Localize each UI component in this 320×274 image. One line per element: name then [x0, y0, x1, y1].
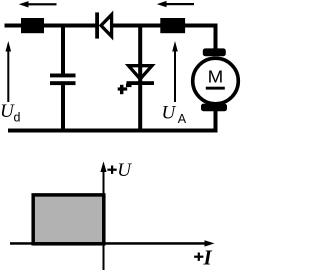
- thyristor T1 triangle: [129, 66, 153, 79]
- voltage arrow Ud: [6, 41, 12, 102]
- capacitor C1 plates: [50, 74, 76, 86]
- motor label M with underline: [206, 67, 225, 90]
- label Ud: [0, 101, 21, 125]
- svg-text:U: U: [162, 103, 177, 124]
- wire top rail left segment: [5, 24, 97, 28]
- current arrow left (over L1): [19, 1, 57, 7]
- motor bottom brush: [201, 104, 227, 112]
- motor M circle: [193, 58, 239, 104]
- wire bottom rail: [8, 129, 218, 133]
- axis label +U: [107, 160, 132, 181]
- inductor L2 (filled choke rectangle): [160, 18, 185, 33]
- thyristor T1 gate lead with terminal tick: [118, 84, 132, 95]
- inductor L1 (filled choke rectangle): [21, 18, 44, 33]
- motor top brush: [203, 48, 226, 56]
- graph vertical axis +U: [100, 161, 106, 270]
- voltage arrow UA: [172, 41, 178, 102]
- wire motor bottom lead: [214, 108, 218, 130]
- wire right vertical drop to motor: [214, 24, 218, 50]
- svg-text:U: U: [117, 160, 132, 181]
- capacitor C1 top lead: [61, 27, 65, 74]
- capacitor C1 bottom lead: [61, 85, 65, 129]
- label UA: [162, 103, 187, 126]
- thyristor T1 cathode bar: [127, 81, 155, 85]
- svg-text:M: M: [208, 67, 224, 87]
- axis label +I: [194, 245, 212, 269]
- svg-text:A: A: [178, 112, 187, 126]
- graph shaded operating region (grey rectangle): [33, 195, 104, 244]
- current arrow right (over L2): [157, 1, 194, 7]
- graph horizontal axis +I: [10, 240, 215, 246]
- svg-text:d: d: [14, 111, 21, 125]
- thyristor branch wire (anode to cathode through symbol): [138, 27, 142, 129]
- svg-text:I: I: [203, 245, 213, 269]
- wire top rail right segment: [112, 24, 218, 28]
- diode V1 (freewheeling diode, cathode bar left, triangle pointing left): [95, 12, 111, 38]
